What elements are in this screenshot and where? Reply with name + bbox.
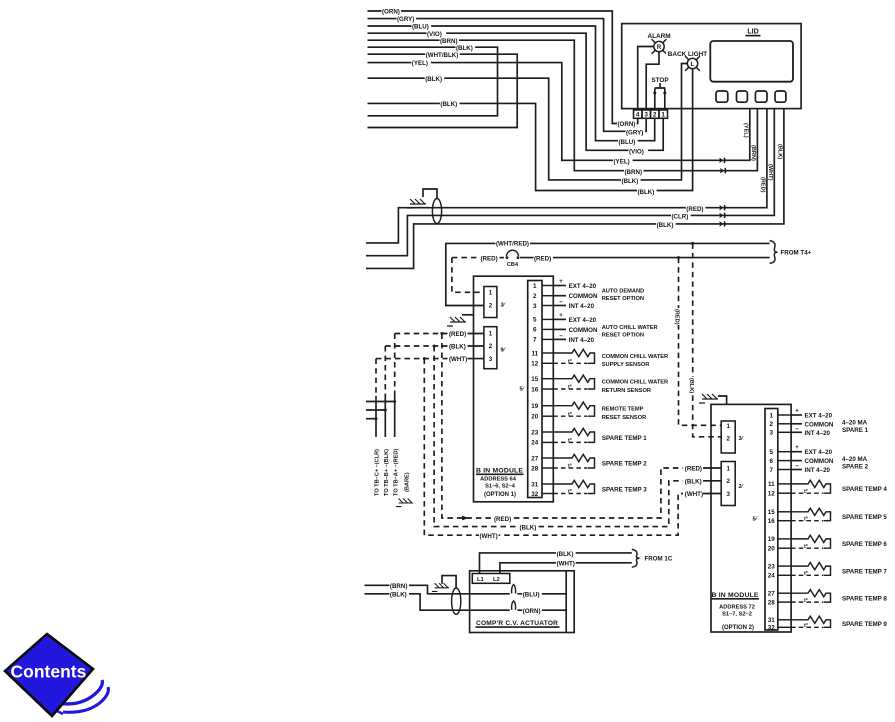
- underline B IN MODULE m2: [712, 598, 760, 600]
- svg-text:19: 19: [531, 403, 539, 410]
- svg-text:t°: t°: [804, 571, 808, 577]
- junction dot RED row at dashed drop: [677, 256, 680, 259]
- svg-text:2: 2: [653, 112, 657, 119]
- label (RED) loop: [494, 516, 514, 521]
- label (YEL): [411, 60, 431, 65]
- label (RED) right of CB4: [534, 256, 554, 261]
- thermistor sensor module2 pins 31/32: [791, 616, 830, 627]
- svg-text:(YEL): (YEL): [743, 123, 749, 138]
- svg-text:EXT 4–20: EXT 4–20: [569, 283, 597, 290]
- svg-text:SUPPLY SENSOR: SUPPLY SENSOR: [602, 362, 650, 368]
- thermistor sensor module1 pins 19/20: [553, 402, 594, 416]
- thermistor sensor module2 pins 19/20: [791, 535, 830, 548]
- svg-text:+: +: [559, 279, 563, 285]
- svg-text:(BLU): (BLU): [412, 24, 429, 31]
- actuator box inner edge: [565, 571, 567, 633]
- svg-text:ADDRESS 64: ADDRESS 64: [480, 476, 517, 482]
- wire BLU to lid terminal 2: [368, 26, 655, 141]
- svg-text:(YEL): (YEL): [614, 159, 630, 166]
- module1 pin6 stub: [553, 328, 566, 330]
- svg-text:(BLK): (BLK): [777, 144, 783, 159]
- label (BLU): [522, 592, 542, 597]
- TB-A column solid: [394, 396, 396, 437]
- svg-text:t°: t°: [568, 385, 572, 391]
- svg-text:(BLK): (BLK): [557, 551, 574, 558]
- TB-B column solid: [384, 396, 386, 437]
- svg-text:COMMON CHILL WATER: COMMON CHILL WATER: [602, 354, 668, 360]
- ground at actuator cable shield: [432, 583, 449, 591]
- svg-text:(BARE): (BARE): [405, 472, 411, 492]
- actuator shield drain loop: [442, 576, 456, 588]
- svg-text:(BRN): (BRN): [390, 583, 408, 590]
- dashed BLK loop to module 2: [434, 346, 683, 527]
- tap dot BLK row: [433, 345, 436, 348]
- ground stub module 2: [718, 396, 727, 404]
- svg-text:SPARE TEMP 1: SPARE TEMP 1: [602, 435, 647, 442]
- svg-text:t°: t°: [804, 623, 808, 629]
- wire WHT/BLK u-loop: [368, 54, 518, 127]
- svg-text:t°: t°: [568, 412, 572, 418]
- label (BLU) lower: [618, 139, 638, 144]
- RED loop into module 2 pin1: [703, 467, 721, 469]
- dashed TB-B column upper: [384, 346, 386, 396]
- label (BLU): [412, 24, 432, 29]
- svg-text:SPARE 2: SPARE 2: [842, 464, 869, 471]
- wire BLU inside actuator: [517, 593, 566, 595]
- svg-text:t°: t°: [568, 359, 572, 365]
- svg-text:24: 24: [531, 440, 539, 447]
- wire RED from CB4 to T4 bracket: [520, 257, 770, 259]
- svg-text:5: 5: [770, 449, 774, 456]
- label (BLK) row4: [656, 222, 676, 227]
- lid button 3: [755, 91, 767, 102]
- svg-text:SPARE TEMP 2: SPARE TEMP 2: [602, 461, 647, 468]
- svg-text:S1–7, S2–2: S1–7, S2–2: [722, 612, 752, 618]
- junction TB-C: [375, 417, 378, 420]
- wire alarm lamp to terminal 4: [638, 47, 654, 111]
- svg-text:1: 1: [726, 423, 730, 430]
- wire BLK u-loop upper: [368, 47, 498, 116]
- underline LID: [746, 35, 761, 37]
- svg-text:7: 7: [770, 467, 774, 474]
- wire BLK to back light lamp bottom lead: [368, 69, 693, 191]
- connector on YEL wire: [719, 158, 723, 164]
- svg-text:32: 32: [768, 625, 776, 632]
- svg-text:(RED): (RED): [449, 331, 466, 338]
- thermistor sensor module2 pins 11/12: [791, 480, 830, 493]
- circuit breaker CB4: [507, 250, 519, 256]
- svg-text:FROM 1C: FROM 1C: [645, 556, 673, 563]
- stop switch bar and stem: [655, 83, 666, 88]
- label (BLK) loop: [519, 525, 539, 530]
- svg-text:2: 2: [726, 478, 730, 485]
- label (BLK) row3: [440, 101, 460, 106]
- WHT wire into block B: [468, 358, 484, 360]
- lamp BACK LIGHT (L): [685, 56, 700, 71]
- svg-text:2: 2: [489, 343, 493, 350]
- underline B IN MODULE m1: [476, 473, 524, 475]
- svg-text:(BRN): (BRN): [625, 169, 643, 176]
- wire BLK to back light lamp left lead: [368, 64, 688, 180]
- svg-text:3: 3: [770, 430, 774, 437]
- svg-text:(WHT): (WHT): [767, 164, 773, 181]
- label (RED) module2: [684, 466, 704, 471]
- label (WHT) loop: [479, 533, 499, 538]
- wire GRY to lid terminal 3: [368, 19, 647, 132]
- TB-C stub: [366, 418, 376, 420]
- svg-text:INT 4–20: INT 4–20: [569, 337, 595, 344]
- svg-text:AUTO CHILL WATER: AUTO CHILL WATER: [602, 325, 658, 331]
- label (ORN): [522, 608, 542, 613]
- svg-text:EXT 4–20: EXT 4–20: [805, 449, 833, 456]
- WHT loop into module 2 pin3: [703, 493, 721, 495]
- label (BLK): [456, 45, 476, 50]
- dashed RED loop to module 2: [442, 334, 683, 519]
- wire ORN from left bundle to lid terminal 4: [368, 11, 638, 124]
- svg-text:t°: t°: [804, 544, 808, 550]
- svg-text:COMMON: COMMON: [569, 293, 598, 300]
- wire BLK from L1 to 1C: [480, 553, 632, 574]
- lid button 4: [775, 91, 786, 102]
- svg-text:(WHT): (WHT): [557, 561, 575, 568]
- wire RED row to lid: [366, 109, 767, 243]
- module 2 connector block D (pins 1,2,3): [721, 462, 735, 506]
- svg-text:Contents: Contents: [11, 662, 87, 682]
- module1 pin2 stub: [553, 295, 566, 297]
- svg-text:EXT 4–20: EXT 4–20: [805, 413, 833, 420]
- bracket FROM T4+: [770, 241, 778, 264]
- svg-text:COMMON: COMMON: [569, 327, 598, 334]
- svg-text:3: 3: [726, 491, 730, 498]
- svg-text:(WHT/RED): (WHT/RED): [496, 240, 529, 247]
- thermistor sensor module1 pins 11/12: [553, 349, 594, 363]
- connector on BRN wire: [720, 168, 724, 174]
- junction TB-B: [384, 409, 387, 412]
- svg-text:SPARE 1: SPARE 1: [842, 427, 869, 434]
- svg-text:RESET SENSOR: RESET SENSOR: [602, 415, 647, 421]
- svg-text:(BLK): (BLK): [449, 344, 466, 351]
- svg-text:1: 1: [661, 112, 665, 119]
- svg-text:RETURN SENSOR: RETURN SENSOR: [602, 388, 651, 394]
- svg-text:COMMON: COMMON: [805, 458, 834, 465]
- label (BRN): [440, 38, 460, 43]
- svg-text:16: 16: [531, 386, 539, 393]
- svg-text:t°: t°: [568, 489, 572, 495]
- label (VIO) lower: [629, 149, 649, 154]
- label (BLK) lower2: [621, 178, 641, 183]
- wire BLK into actuator: [365, 594, 510, 610]
- svg-text:(WHT): (WHT): [480, 533, 498, 540]
- svg-text:(RED): (RED): [481, 255, 498, 262]
- svg-text:SPARE TEMP 7: SPARE TEMP 7: [842, 568, 887, 575]
- dashed TB-C column upper: [375, 359, 377, 396]
- svg-text:20: 20: [531, 414, 539, 421]
- svg-text:TO TB–A+ –(RED): TO TB–A+ –(RED): [394, 449, 400, 496]
- svg-text:(RED): (RED): [760, 177, 766, 193]
- svg-text:(ORN): (ORN): [618, 121, 636, 128]
- label (ORN): [382, 9, 402, 14]
- module 2 connector block C (pins 1,2): [721, 421, 735, 453]
- svg-text:24: 24: [768, 573, 776, 580]
- svg-text:L1: L1: [477, 577, 485, 583]
- svg-text:SPARE TEMP 5: SPARE TEMP 5: [842, 514, 887, 521]
- thermistor sensor module1 pins 23/24: [553, 428, 594, 442]
- LID enclosure box: [622, 24, 801, 109]
- svg-text:+: +: [795, 409, 799, 415]
- module1 pin5 stub: [553, 318, 566, 320]
- svg-text:3: 3: [489, 356, 493, 363]
- svg-text:AUTO DEMAND: AUTO DEMAND: [602, 289, 645, 295]
- svg-text:1: 1: [726, 465, 730, 472]
- lid button 1: [716, 91, 728, 102]
- module2 pin1 stub: [791, 414, 802, 416]
- svg-text:SPARE TEMP 3: SPARE TEMP 3: [602, 486, 647, 493]
- arrow on RED loop: [462, 516, 469, 521]
- CB4 contact left: [506, 256, 509, 259]
- svg-text:6: 6: [533, 327, 537, 334]
- svg-text:(BLK): (BLK): [638, 189, 655, 196]
- svg-text:SPARE TEMP 9: SPARE TEMP 9: [842, 621, 887, 628]
- label (WHT) from 1C: [556, 561, 576, 566]
- svg-text:RESET OPTION: RESET OPTION: [602, 333, 644, 339]
- svg-text:(BLK): (BLK): [657, 222, 674, 229]
- svg-text:12: 12: [768, 491, 776, 498]
- svg-text:2: 2: [489, 303, 493, 310]
- connector on CLR row: [719, 213, 723, 219]
- module1 pin3 stub: [553, 305, 566, 307]
- svg-text:16: 16: [768, 518, 776, 525]
- CB4 contact right: [517, 256, 520, 259]
- svg-text:(GRY): (GRY): [397, 16, 414, 23]
- svg-text:(OPTION 1): (OPTION 1): [484, 492, 516, 498]
- actuator terminal strip L1 L2: [472, 574, 510, 584]
- wire ORN inside actuator: [517, 609, 566, 611]
- B IN MODULE (OPTION 2) outer box: [711, 404, 791, 632]
- underline actuator label: [476, 626, 560, 628]
- svg-text:(WHT): (WHT): [685, 491, 703, 498]
- svg-text:(BLU): (BLU): [619, 139, 636, 146]
- svg-text:R: R: [657, 45, 662, 51]
- svg-text:31: 31: [768, 617, 776, 624]
- svg-text:SPARE TEMP 6: SPARE TEMP 6: [842, 541, 887, 548]
- svg-text:(RED): (RED): [686, 206, 703, 213]
- stop contact dot left: [653, 92, 656, 95]
- svg-text:INT 4–20: INT 4–20: [569, 303, 595, 310]
- svg-text:11: 11: [531, 350, 538, 357]
- svg-text:COMP'R C.V. ACTUATOR: COMP'R C.V. ACTUATOR: [476, 620, 558, 627]
- svg-text:(BLK): (BLK): [440, 101, 457, 108]
- dashed RED to module 1 block A pin 1: [452, 258, 484, 293]
- svg-text:27: 27: [531, 455, 539, 462]
- module2 pin6 stub: [791, 460, 802, 462]
- shield oval on actuator cable: [452, 588, 461, 614]
- label (BLK) from 1C: [556, 551, 576, 556]
- module 2 terminal strip: [765, 409, 778, 631]
- svg-text:(RED): (RED): [685, 466, 702, 473]
- label (RED) row: [686, 206, 706, 211]
- ground stub module 1: [462, 314, 474, 316]
- lamp ALARM (R): [652, 39, 667, 54]
- svg-text:28: 28: [531, 465, 539, 472]
- svg-text:(RED): (RED): [494, 516, 511, 523]
- dashed WHT loop to module 2: [424, 359, 683, 536]
- Contents logo diamond: [5, 634, 108, 716]
- svg-text:(BLK): (BLK): [456, 45, 473, 52]
- label (WHT/RED): [496, 241, 530, 246]
- wire alarm lamp to terminal 3: [646, 52, 659, 110]
- BLK loop into module 2 pin2: [703, 480, 721, 482]
- wire shield drain loop: [423, 189, 437, 199]
- stop switch lead to terminal 1: [664, 89, 666, 111]
- tap dot WHT row: [423, 357, 426, 360]
- TB-A stub: [366, 401, 395, 403]
- svg-text:LID: LID: [747, 28, 758, 35]
- dashed TB-A column upper: [394, 334, 396, 397]
- ground at shield of RED/CLR/BLK cable: [407, 199, 426, 208]
- svg-text:(ORN): (ORN): [382, 9, 400, 16]
- svg-text:COMMON: COMMON: [805, 421, 834, 428]
- svg-text:23: 23: [768, 563, 776, 570]
- wire BLK row to lid: [366, 109, 784, 269]
- connector on BLK row: [719, 221, 723, 227]
- svg-text:1: 1: [770, 412, 774, 419]
- fuse plug 1 in actuator: [512, 585, 516, 594]
- svg-text:5: 5: [533, 317, 537, 324]
- wire YEL to lid display connector: [368, 63, 750, 161]
- svg-text:(OPTION 2): (OPTION 2): [722, 625, 754, 631]
- svg-text:4–20 MA: 4–20 MA: [842, 419, 868, 426]
- svg-text:(BLK): (BLK): [685, 478, 702, 485]
- svg-text:t°: t°: [804, 598, 808, 604]
- svg-text:1: 1: [533, 283, 537, 290]
- label (BLK) lower3: [637, 189, 657, 194]
- svg-text:(BLK): (BLK): [520, 525, 537, 532]
- label (CLR) row: [671, 214, 691, 219]
- label (BLK) row2: [425, 76, 445, 81]
- svg-text:STOP: STOP: [651, 77, 669, 84]
- wire WHT/RED from T4 to module 1 block A pin 2: [446, 243, 770, 305]
- svg-text:(BLU): (BLU): [523, 592, 540, 599]
- svg-text:+: +: [559, 313, 563, 319]
- label (RED) vertical dashed: [674, 308, 680, 325]
- wire BRN into actuator: [365, 585, 510, 594]
- svg-text:CB4: CB4: [507, 262, 519, 268]
- lid button 2: [737, 91, 748, 102]
- svg-text:23: 23: [531, 429, 539, 436]
- svg-text:B IN MODULE: B IN MODULE: [476, 468, 523, 475]
- svg-text:+: +: [795, 445, 799, 451]
- thermistor sensor module1 pins 31/32: [553, 480, 594, 493]
- svg-text:31: 31: [531, 481, 539, 488]
- label (ORN) lower: [617, 121, 637, 126]
- svg-text:(WHT): (WHT): [449, 356, 467, 363]
- label (WHT/BLK): [425, 52, 459, 57]
- dash before CB4: [500, 257, 505, 259]
- label (WHT) module2: [684, 491, 704, 496]
- svg-text:(CLR): (CLR): [672, 214, 689, 221]
- module 1 connector block B (pins 1,2,3): [484, 327, 497, 369]
- svg-text:t°: t°: [804, 516, 808, 522]
- svg-text:2: 2: [770, 421, 774, 428]
- svg-text:ADDRESS 72: ADDRESS 72: [719, 605, 755, 611]
- svg-text:t°: t°: [804, 489, 808, 495]
- svg-text:4: 4: [636, 112, 640, 119]
- label (BLK) actuator: [389, 592, 409, 597]
- connector on RED row: [719, 205, 723, 211]
- svg-text:15: 15: [531, 376, 539, 383]
- svg-text:1: 1: [489, 290, 493, 297]
- fuse plug 2 in actuator: [512, 601, 516, 610]
- module1 pin1 stub: [553, 285, 566, 287]
- svg-text:(VIO): (VIO): [629, 148, 644, 155]
- dashed BLK wire to block B pin2: [385, 345, 447, 347]
- svg-text:L2: L2: [493, 577, 500, 583]
- junction dot WHT/RED row: [691, 242, 694, 245]
- svg-text:S1–6, S2–4: S1–6, S2–4: [485, 483, 516, 489]
- svg-text:6: 6: [770, 458, 774, 465]
- label (BLK) vertical dashed: [688, 377, 694, 394]
- label (BRN) lower: [624, 169, 644, 174]
- dashed BLK drop to module 2 block C pin 2: [693, 243, 722, 436]
- svg-text:(RED): (RED): [534, 255, 551, 262]
- svg-text:19: 19: [768, 536, 776, 543]
- module1 pin7 stub: [553, 338, 566, 340]
- svg-text:(YEL): (YEL): [412, 60, 428, 67]
- ground at module 2: [699, 394, 718, 403]
- svg-text:(GRY): (GRY): [626, 130, 643, 137]
- stop switch lead to terminal 2: [654, 89, 656, 111]
- svg-text:(BRN): (BRN): [440, 38, 458, 45]
- svg-text:(BLK): (BLK): [390, 592, 407, 599]
- svg-text:11: 11: [768, 481, 775, 488]
- svg-text:12: 12: [531, 361, 539, 368]
- wire CB4 RED dashed segment: [452, 257, 479, 259]
- dashed WHT wire to block B pin3: [376, 358, 448, 360]
- label (VIO): [427, 31, 447, 36]
- bracket FROM 1C: [632, 549, 640, 567]
- label (BLK) module2: [684, 479, 704, 484]
- svg-text:2: 2: [533, 293, 537, 300]
- svg-text:REMOTE TEMP: REMOTE TEMP: [602, 407, 644, 413]
- thermistor sensor module1 pins 15/16: [553, 375, 594, 389]
- svg-text:4–20 MA: 4–20 MA: [842, 456, 868, 463]
- svg-text:(BRN): (BRN): [750, 145, 756, 161]
- wire VIO to lid terminal 1: [368, 33, 664, 150]
- svg-text:TO TB–C+ –(CLR): TO TB–C+ –(CLR): [375, 449, 381, 496]
- wire CLR row to lid: [366, 109, 774, 256]
- label (GRY) lower: [626, 130, 646, 135]
- COMP R C.V. ACTUATOR box: [470, 571, 575, 633]
- module 1 connector block A (pins 1,2): [484, 287, 497, 318]
- svg-text:7: 7: [533, 337, 537, 344]
- svg-text:(BLK): (BLK): [622, 178, 639, 185]
- svg-text:(BLK): (BLK): [688, 378, 694, 393]
- svg-text:INT 4–20: INT 4–20: [805, 430, 831, 437]
- ground BARE wire: [396, 499, 413, 507]
- svg-text:(BLK): (BLK): [425, 76, 442, 83]
- module2 pin7 stub: [791, 469, 802, 471]
- svg-text:TO TB–B+ –(BLK): TO TB–B+ –(BLK): [384, 449, 390, 496]
- RED wire into block B: [468, 333, 484, 335]
- svg-text:COMMON CHILL WATER: COMMON CHILL WATER: [602, 380, 668, 386]
- wire WHT from L2 to 1C: [500, 563, 632, 574]
- svg-text:SPARE TEMP 8: SPARE TEMP 8: [842, 595, 887, 602]
- lid display window: [710, 41, 793, 82]
- svg-text:1: 1: [489, 331, 493, 338]
- module2 pin3 stub: [791, 431, 802, 433]
- thermistor sensor module1 pins 27/28: [553, 454, 594, 468]
- dashed RED drop to module 2 block C pin 1: [679, 258, 722, 426]
